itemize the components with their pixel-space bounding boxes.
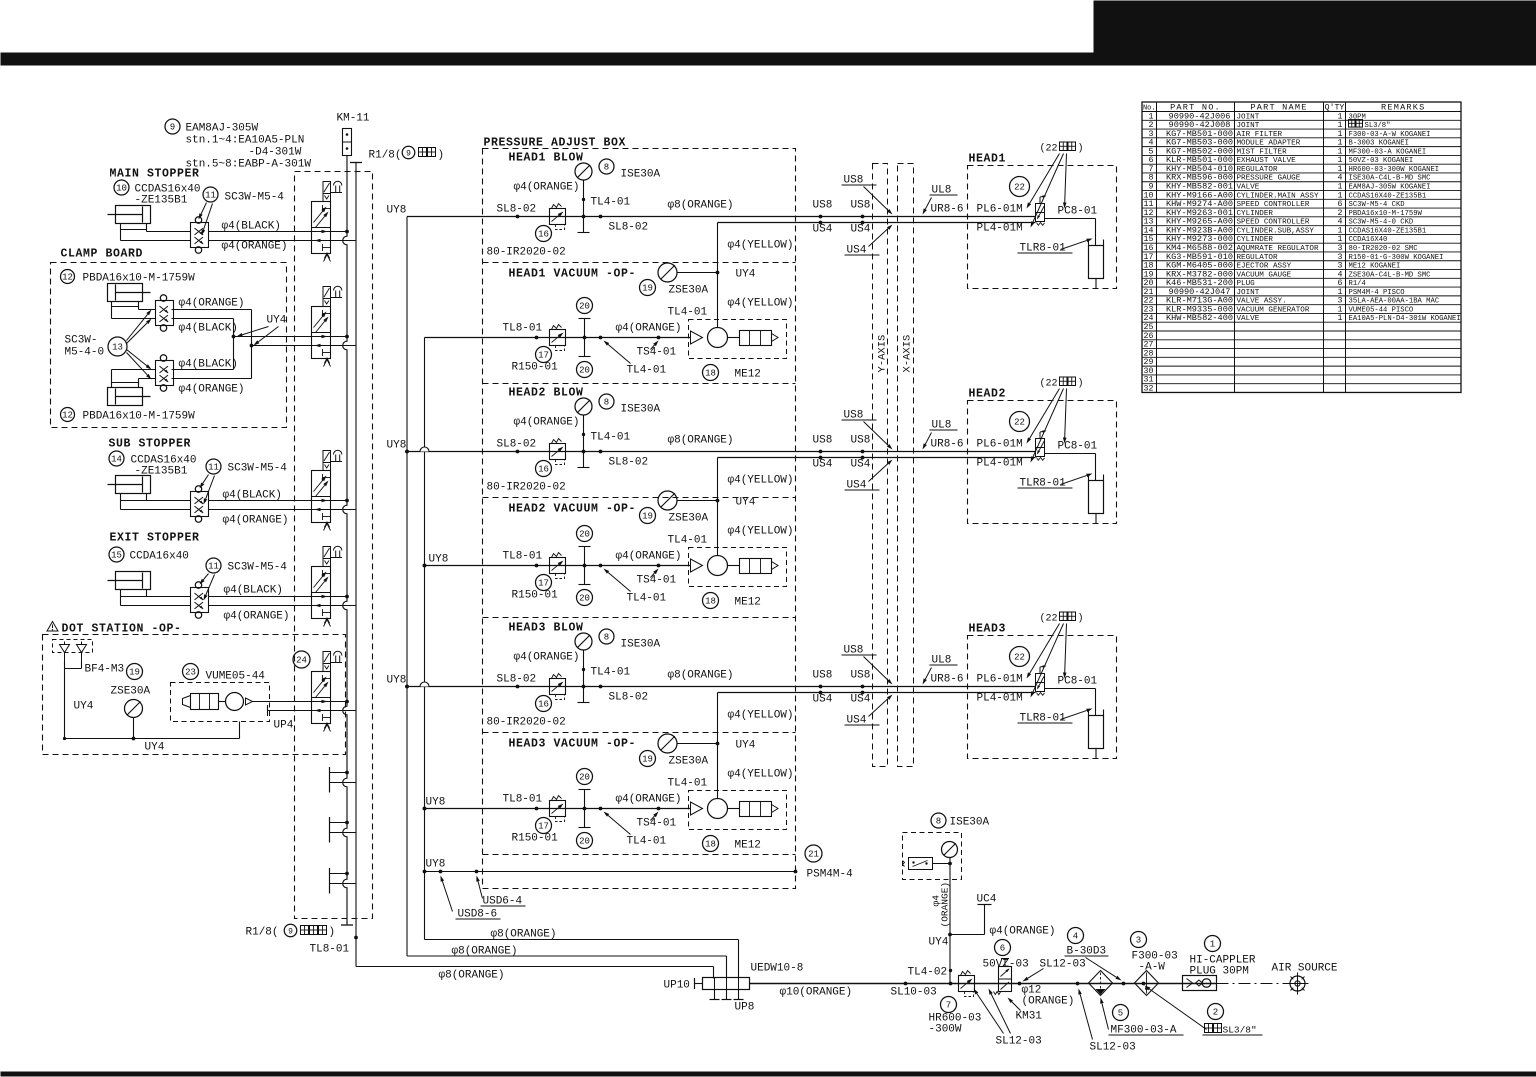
- svg-text:ME12: ME12: [735, 597, 761, 609]
- svg-text:SC3W-: SC3W-: [65, 335, 98, 347]
- svg-text:1: 1: [1338, 226, 1343, 235]
- title bar: [1, 53, 1536, 66]
- svg-text:REGULATOR: REGULATOR: [1237, 254, 1278, 262]
- speed controller 11 SC3W-M5-4: [203, 187, 218, 202]
- svg-text:EJECTOR ASSY: EJECTOR ASSY: [1237, 263, 1292, 271]
- svg-text:(22: (22: [1040, 143, 1058, 155]
- svg-text:2: 2: [1213, 1008, 1218, 1018]
- svg-text:ZSE30A-C4L-B-MD SMC: ZSE30A-C4L-B-MD SMC: [1349, 271, 1432, 279]
- svg-text:TS4-01: TS4-01: [637, 818, 677, 830]
- svg-text:HEAD2 BLOW: HEAD2 BLOW: [509, 387, 584, 400]
- svg-text:2: 2: [1149, 121, 1154, 130]
- svg-text:1: 1: [1338, 139, 1343, 148]
- parts list table: [1142, 102, 1461, 392]
- svg-text:8: 8: [604, 163, 609, 173]
- plug 20 lower: [579, 827, 591, 829]
- svg-text:UY4: UY4: [267, 315, 287, 327]
- svg-text:30: 30: [1144, 367, 1154, 376]
- svg-text:MODULE ADAPTER: MODULE ADAPTER: [1237, 140, 1301, 148]
- svg-text:11: 11: [208, 562, 219, 572]
- svg-text:F300-03-A-W KOGANEI: F300-03-A-W KOGANEI: [1349, 131, 1431, 139]
- svg-text:50VZ-03: 50VZ-03: [983, 959, 1029, 971]
- svg-text:TL8-01: TL8-01: [503, 323, 543, 335]
- svg-text:TL4-01: TL4-01: [627, 593, 667, 605]
- wire return line: [718, 222, 1036, 224]
- valve body: [312, 672, 331, 724]
- valve spring: [324, 253, 331, 262]
- svg-text:1: 1: [1338, 130, 1343, 139]
- svg-text:SC3W-M5-4 CKD: SC3W-M5-4 CKD: [1349, 201, 1405, 209]
- valve manual override: [334, 546, 342, 550]
- svg-text:ISE30A: ISE30A: [621, 639, 661, 651]
- svg-text:1: 1: [1338, 147, 1343, 156]
- svg-text:13: 13: [112, 343, 123, 353]
- svg-text:VACUUM GENERATOR: VACUUM GENERATOR: [1237, 306, 1310, 314]
- valve manifold dashed enclosure: [295, 172, 373, 919]
- svg-text:R1/8(: R1/8(: [246, 927, 279, 939]
- svg-text:UY4: UY4: [929, 937, 949, 949]
- wire valve output A: [312, 336, 348, 338]
- wire supply rail P: [343, 156, 347, 924]
- svg-text:CLAMP BOARD: CLAMP BOARD: [61, 248, 144, 261]
- svg-text:SC3W-M5-4-0 CKD: SC3W-M5-4-0 CKD: [1349, 219, 1414, 227]
- svg-text:11: 11: [208, 463, 219, 473]
- svg-text:): ): [1078, 613, 1084, 625]
- svg-text:80-IR2020-02 SMC: 80-IR2020-02 SMC: [1349, 245, 1419, 253]
- wire gauge tap: [583, 415, 585, 468]
- wire clamp to valve A: [172, 309, 252, 311]
- svg-text:SL8-02: SL8-02: [497, 204, 537, 216]
- svg-text:UY8: UY8: [387, 675, 407, 687]
- pressure gauge 8 ISE30A: [575, 633, 592, 650]
- valve assy circle 22: [1010, 647, 1030, 667]
- svg-text:SPEED CONTROLLER: SPEED CONTROLLER: [1237, 201, 1310, 209]
- svg-text:24: 24: [1144, 314, 1154, 323]
- svg-text:DOT STATION -OP-: DOT STATION -OP-: [62, 623, 182, 636]
- svg-text:4: 4: [1338, 218, 1343, 227]
- svg-text:CCDAS16X40-ZE135B1: CCDAS16X40-ZE135B1: [1349, 227, 1427, 235]
- valve manual override: [334, 651, 342, 655]
- svg-text:): ): [1078, 143, 1084, 155]
- svg-text:TL4-01: TL4-01: [627, 365, 667, 377]
- svg-text:7: 7: [1149, 165, 1154, 174]
- svg-text:ZSE30A: ZSE30A: [111, 686, 151, 698]
- wire UY8 blow riser: [406, 217, 408, 957]
- svg-text:PL4-01M: PL4-01M: [977, 693, 1023, 705]
- cylinder TLR8-01: [1088, 240, 1090, 246]
- wire return line: [718, 457, 1036, 459]
- svg-text:UY4: UY4: [145, 742, 165, 754]
- svg-text:12: 12: [1144, 209, 1154, 218]
- HEAD3 dashed enclosure: [968, 636, 1117, 759]
- svg-text:TL4-01: TL4-01: [668, 307, 708, 319]
- svg-text:HR600-03-300W KOGANEI: HR600-03-300W KOGANEI: [1349, 166, 1440, 174]
- wire gauge drop: [949, 858, 951, 984]
- svg-text:ISE30A-C4L-B-MD SMC: ISE30A-C4L-B-MD SMC: [1349, 175, 1432, 183]
- svg-text:20: 20: [1144, 279, 1154, 288]
- svg-text:KM-11: KM-11: [337, 113, 370, 125]
- svg-text:1: 1: [1338, 191, 1343, 200]
- svg-text:φ4(BLACK): φ4(BLACK): [224, 585, 283, 597]
- title block top-right: [1094, 1, 1536, 65]
- wire valve output A: [312, 500, 348, 502]
- svg-text:17: 17: [538, 579, 549, 589]
- svg-text:UC4: UC4: [977, 894, 997, 906]
- pressure adjust box dashed enclosure: [483, 149, 796, 889]
- svg-text:8: 8: [604, 633, 609, 643]
- svg-text:VALVE ASSY.: VALVE ASSY.: [1237, 298, 1287, 306]
- svg-text:35LA-AEA-00AA-1BA MAC: 35LA-AEA-00AA-1BA MAC: [1349, 298, 1440, 306]
- svg-text:φ8(ORANGE): φ8(ORANGE): [452, 946, 518, 958]
- svg-text:-D4-301W: -D4-301W: [249, 147, 302, 159]
- svg-text:TL4-01: TL4-01: [627, 836, 667, 848]
- plug 20 lower: [579, 584, 591, 586]
- svg-text:PL6-01M: PL6-01M: [977, 204, 1023, 216]
- plug 20 upper: [577, 298, 593, 314]
- svg-text:MIST FILTER: MIST FILTER: [1237, 148, 1288, 156]
- svg-text:1: 1: [1210, 940, 1215, 950]
- svg-text:φ4(BLACK): φ4(BLACK): [179, 323, 238, 335]
- svg-text:JOINT: JOINT: [1237, 289, 1260, 297]
- valve spring: [324, 522, 331, 531]
- svg-text:PSM4M-4: PSM4M-4: [807, 869, 854, 881]
- svg-text:18: 18: [705, 597, 716, 607]
- svg-text:3: 3: [1338, 297, 1343, 306]
- svg-text:ISE30A: ISE30A: [621, 169, 661, 181]
- wire valve output B: [312, 509, 357, 511]
- svg-text:ME12: ME12: [735, 840, 761, 852]
- clamp board dashed enclosure: [51, 263, 287, 428]
- svg-text:PRESSURE GAUGE: PRESSURE GAUGE: [1237, 175, 1301, 183]
- svg-text:5: 5: [1118, 1009, 1123, 1019]
- svg-text:φ4(ORANGE): φ4(ORANGE): [179, 384, 245, 396]
- plug R1/8 bottom: [341, 924, 353, 926]
- svg-text:15: 15: [111, 551, 122, 561]
- svg-text:AIR SOURCE: AIR SOURCE: [1272, 963, 1338, 975]
- svg-text:SL8-02: SL8-02: [609, 692, 649, 704]
- plug 20 upper: [577, 526, 593, 542]
- svg-text:UY8: UY8: [426, 859, 446, 871]
- svg-text:UR8-6: UR8-6: [931, 439, 964, 451]
- valve spring: [324, 358, 331, 367]
- wire valve output B: [312, 345, 357, 347]
- svg-text:31: 31: [1144, 376, 1154, 385]
- svg-text:4: 4: [1149, 139, 1154, 148]
- valve solenoid pilot: [323, 547, 331, 559]
- wire PC8-01 to cylinder: [1045, 218, 1096, 220]
- wire phi4 yellow riser: [717, 223, 719, 328]
- vacuum gauge 19 ZSE30A dot station: [127, 664, 143, 680]
- svg-text:1: 1: [1338, 183, 1343, 192]
- module adapter 4 B-30D3: [1068, 928, 1084, 944]
- svg-text:PL6-01M: PL6-01M: [977, 439, 1023, 451]
- svg-text:CYLINDER.SUB,ASSY: CYLINDER.SUB,ASSY: [1237, 227, 1315, 235]
- valve solenoid pilot: [323, 287, 331, 299]
- svg-text:UY8: UY8: [387, 205, 407, 217]
- section divider: [483, 732, 796, 734]
- blank station 6: [329, 767, 331, 793]
- svg-text:19: 19: [642, 284, 653, 294]
- svg-text:16: 16: [538, 700, 549, 710]
- svg-text:PL4-01M: PL4-01M: [977, 223, 1023, 235]
- svg-text:PRESSURE ADJUST BOX: PRESSURE ADJUST BOX: [484, 137, 627, 150]
- speed controller 11 SC3W-M5-4 sub: [206, 459, 221, 474]
- svg-text:23: 23: [185, 668, 196, 678]
- svg-text:80-IR2020-02: 80-IR2020-02: [487, 247, 566, 259]
- wire UP10 manifold: [694, 978, 696, 989]
- valve body: [312, 567, 331, 619]
- svg-text:UR8-6: UR8-6: [931, 674, 964, 686]
- svg-text:VACUUM GAUGE: VACUUM GAUGE: [1237, 271, 1292, 279]
- vacuum generator 23 VUME05-44: [183, 664, 199, 680]
- svg-text:UR8-6: UR8-6: [931, 204, 964, 216]
- svg-text:1: 1: [1338, 112, 1343, 121]
- wire valve output A: [312, 596, 348, 598]
- svg-text:PLUG: PLUG: [1237, 280, 1256, 288]
- svg-text:φ4(ORANGE): φ4(ORANGE): [223, 515, 289, 527]
- svg-text:UY4: UY4: [736, 497, 756, 509]
- svg-text:TL4-01: TL4-01: [668, 778, 708, 790]
- svg-text:20: 20: [579, 837, 590, 847]
- hand valve 22: [1036, 674, 1045, 683]
- svg-text:TL8-01: TL8-01: [310, 944, 350, 956]
- svg-text:4: 4: [1338, 270, 1343, 279]
- wire hop head3 blow: [420, 682, 429, 687]
- svg-text:US8: US8: [813, 670, 833, 682]
- svg-text:10: 10: [1144, 191, 1154, 200]
- svg-text:TL4-01: TL4-01: [668, 535, 708, 547]
- wire valve output A: [312, 231, 348, 233]
- svg-text:US8: US8: [851, 435, 871, 447]
- wire gauge tap: [583, 650, 585, 703]
- svg-text:US4: US4: [851, 224, 871, 236]
- wire vacuum line to joint 21: [425, 871, 796, 873]
- svg-text:1: 1: [1149, 112, 1154, 121]
- svg-text:1: 1: [1338, 235, 1343, 244]
- plugs UP8: [714, 990, 716, 1000]
- svg-text:PBDA16x10-M-1759W: PBDA16x10-M-1759W: [1349, 210, 1423, 218]
- svg-text:7: 7: [946, 1001, 951, 1011]
- svg-text:ISE30A: ISE30A: [950, 817, 990, 829]
- svg-text:16: 16: [538, 230, 549, 240]
- svg-text:6: 6: [1338, 200, 1343, 209]
- svg-text:30PM: 30PM: [1349, 113, 1366, 121]
- wire clamp cyl1 ports: [111, 307, 113, 319]
- svg-text:φ4(ORANGE): φ4(ORANGE): [616, 323, 682, 335]
- svg-text:US4: US4: [813, 224, 833, 236]
- svg-text:HEAD3 VACUUM -OP-: HEAD3 VACUUM -OP-: [509, 738, 637, 751]
- svg-text:UP10: UP10: [664, 980, 690, 992]
- wire phi8 orange line 1: [425, 939, 739, 941]
- svg-text:18: 18: [705, 840, 716, 850]
- valve spring: [324, 618, 331, 627]
- svg-text:12: 12: [62, 411, 73, 421]
- section divider: [483, 383, 796, 385]
- svg-text:BF4-M3: BF4-M3: [85, 664, 125, 676]
- wire vacuum line: [425, 337, 691, 339]
- svg-text:R150-01: R150-01: [512, 362, 559, 374]
- svg-text:20: 20: [579, 366, 590, 376]
- valve solenoid pilot: [323, 652, 331, 664]
- svg-text:5: 5: [1149, 147, 1154, 156]
- cylinder 12 PBDA16x10-M-1759W lower: [112, 383, 139, 388]
- svg-text:KM31: KM31: [1016, 1011, 1043, 1023]
- mist filter 5 MF300-03-A: [1089, 971, 1113, 996]
- warning mark: [47, 622, 58, 632]
- svg-text:22: 22: [1014, 653, 1025, 663]
- exhaust valve 6 50VZ-03: [995, 940, 1011, 956]
- svg-text:R150-01: R150-01: [512, 833, 559, 845]
- svg-text:SL8-02: SL8-02: [497, 439, 537, 451]
- wire generator to valve: [253, 701, 312, 703]
- svg-text:EAM8AJ-305W KOGANEI: EAM8AJ-305W KOGANEI: [1349, 184, 1431, 192]
- svg-text:UEDW10-8: UEDW10-8: [751, 963, 804, 975]
- svg-text:22: 22: [1014, 183, 1025, 193]
- svg-text:VALVE: VALVE: [1237, 184, 1260, 192]
- svg-text:20: 20: [579, 302, 590, 312]
- svg-text:11: 11: [1144, 200, 1154, 209]
- vacuum gauge 19 ZSE30A: [658, 491, 677, 510]
- wire phi4 yellow riser: [717, 693, 719, 799]
- svg-text:19: 19: [642, 755, 653, 765]
- svg-text:φ4(ORANGE): φ4(ORANGE): [616, 794, 682, 806]
- svg-text:1: 1: [1338, 314, 1343, 323]
- svg-text:US4: US4: [813, 694, 833, 706]
- svg-text:1: 1: [1338, 305, 1343, 314]
- svg-text:φ4(YELLOW): φ4(YELLOW): [728, 240, 794, 252]
- svg-text:ZSE30A: ZSE30A: [669, 513, 709, 525]
- valve assy circle 22: [1010, 177, 1030, 197]
- svg-text:KHW-MB582-400: KHW-MB582-400: [1166, 313, 1233, 323]
- svg-text:19: 19: [129, 668, 140, 678]
- svg-text:Q'TY: Q'TY: [1325, 103, 1345, 113]
- wire UY4 bus dot station: [65, 738, 240, 740]
- svg-text:PC8-01: PC8-01: [1058, 676, 1098, 688]
- svg-text:6: 6: [1149, 156, 1154, 165]
- svg-text:SL12-03: SL12-03: [1090, 1042, 1136, 1054]
- valve spring: [324, 723, 331, 732]
- svg-text:18: 18: [705, 369, 716, 379]
- svg-text:HEAD1: HEAD1: [969, 153, 1007, 166]
- svg-text:4: 4: [1073, 932, 1078, 942]
- svg-text:SL12-03: SL12-03: [996, 1036, 1042, 1048]
- svg-text:φ8(ORANGE): φ8(ORANGE): [439, 970, 505, 982]
- svg-text:JOINT: JOINT: [1237, 122, 1260, 130]
- svg-text:9: 9: [1149, 183, 1154, 192]
- svg-text:ISE30A: ISE30A: [621, 404, 661, 416]
- svg-text:13: 13: [1144, 218, 1154, 227]
- svg-text:φ8(ORANGE): φ8(ORANGE): [668, 670, 734, 682]
- HEAD2 dashed enclosure: [968, 401, 1117, 524]
- svg-text:φ4(YELLOW): φ4(YELLOW): [728, 526, 794, 538]
- svg-text:US8: US8: [851, 200, 871, 212]
- speed controller 13 upper: [156, 301, 174, 326]
- svg-text:20: 20: [579, 773, 590, 783]
- wire blow main line: [407, 216, 1036, 218]
- svg-text:CYLINDER: CYLINDER: [1237, 236, 1274, 244]
- svg-text:22: 22: [1144, 297, 1154, 306]
- wire cylinder to speed controller: [146, 230, 148, 232]
- Y-AXIS dashed box: [873, 164, 888, 767]
- svg-text:2: 2: [1338, 209, 1343, 218]
- svg-text:φ4(ORANGE): φ4(ORANGE): [514, 652, 580, 664]
- wire blow main line: [407, 686, 1036, 688]
- wire clamp cyl2 ports: [172, 369, 234, 371]
- svg-text:φ4(BLACK): φ4(BLACK): [223, 490, 282, 502]
- svg-text:CYLINDER.MAIN ASSY: CYLINDER.MAIN ASSY: [1237, 192, 1319, 200]
- svg-text:1: 1: [1338, 156, 1343, 165]
- svg-text:EXIT STOPPER: EXIT STOPPER: [110, 532, 200, 545]
- section divider: [483, 854, 796, 856]
- svg-text:UP4: UP4: [274, 720, 294, 732]
- svg-text:UY4: UY4: [736, 740, 756, 752]
- section divider: [483, 617, 796, 619]
- svg-text:SUB STOPPER: SUB STOPPER: [109, 438, 192, 451]
- svg-text:3: 3: [1338, 244, 1343, 253]
- wire UY8 vacuum riser: [424, 338, 426, 940]
- svg-text:17: 17: [538, 351, 549, 361]
- svg-text:3: 3: [1149, 130, 1154, 139]
- svg-text:17: 17: [538, 822, 549, 832]
- svg-text:EA10A5-PLN-D4-301W KOGANEI: EA10A5-PLN-D4-301W KOGANEI: [1349, 315, 1461, 323]
- svg-text:-A-W: -A-W: [1139, 962, 1166, 974]
- svg-text:R1/8(: R1/8(: [369, 150, 402, 162]
- svg-text:HEAD1 BLOW: HEAD1 BLOW: [509, 152, 584, 165]
- svg-text:VUME05-44 PISCO: VUME05-44 PISCO: [1349, 306, 1414, 314]
- wire gauge tap: [583, 180, 585, 233]
- svg-text:φ4(ORANGE): φ4(ORANGE): [224, 611, 290, 623]
- cylinder 15 CCDA16x40: [109, 547, 124, 562]
- svg-text:HEAD2 VACUUM -OP-: HEAD2 VACUUM -OP-: [509, 503, 637, 516]
- svg-text:VUME05-44: VUME05-44: [206, 671, 266, 683]
- section divider: [483, 497, 796, 499]
- plug 20 upper: [577, 769, 593, 785]
- plug 20 lower: [579, 356, 591, 358]
- svg-text:EXHAUST VALVE: EXHAUST VALVE: [1237, 157, 1297, 165]
- valve manual override: [334, 450, 342, 454]
- svg-text:TS4-01: TS4-01: [637, 347, 677, 359]
- leader arrows to valve parts: [1030, 624, 1060, 674]
- valve 9 note EAM8AJ-305W: [165, 119, 180, 134]
- wire blow main line: [407, 451, 1036, 453]
- wire valve output B: [312, 240, 357, 242]
- svg-text:ME12: ME12: [735, 369, 761, 381]
- svg-text:25: 25: [1144, 323, 1154, 332]
- svg-text:(ORANGE): (ORANGE): [940, 882, 951, 928]
- valve solenoid pilot: [323, 451, 331, 463]
- svg-text:8: 8: [1149, 174, 1154, 183]
- svg-text:TL4-01: TL4-01: [591, 197, 631, 209]
- svg-text:18: 18: [1144, 262, 1154, 271]
- svg-text:φ10(ORANGE): φ10(ORANGE): [780, 987, 853, 999]
- svg-text:-ZE135B1: -ZE135B1: [135, 195, 188, 207]
- svg-text:stn.5~8:EABP-A-301W: stn.5~8:EABP-A-301W: [186, 159, 312, 171]
- svg-text:14: 14: [111, 455, 122, 465]
- svg-text:PC8-01: PC8-01: [1058, 206, 1098, 218]
- svg-text:JOINT: JOINT: [1237, 113, 1260, 121]
- svg-text:16: 16: [538, 465, 549, 475]
- cylinder 12 PBDA16x10-M-1759W upper: [61, 270, 75, 284]
- valve body: [312, 471, 331, 523]
- svg-text:UY8: UY8: [426, 797, 446, 809]
- svg-text:ZSE30A: ZSE30A: [669, 285, 709, 297]
- svg-text:19: 19: [642, 512, 653, 522]
- svg-text:PBDA16x10-M-1759W: PBDA16x10-M-1759W: [83, 273, 196, 285]
- svg-text:50VZ-03 KOGANEI: 50VZ-03 KOGANEI: [1349, 157, 1414, 165]
- joint 1 HI-CAPPLER PLUG 30PM: [1205, 936, 1221, 952]
- svg-text:HEAD2: HEAD2: [969, 388, 1007, 401]
- valve body: [312, 202, 331, 254]
